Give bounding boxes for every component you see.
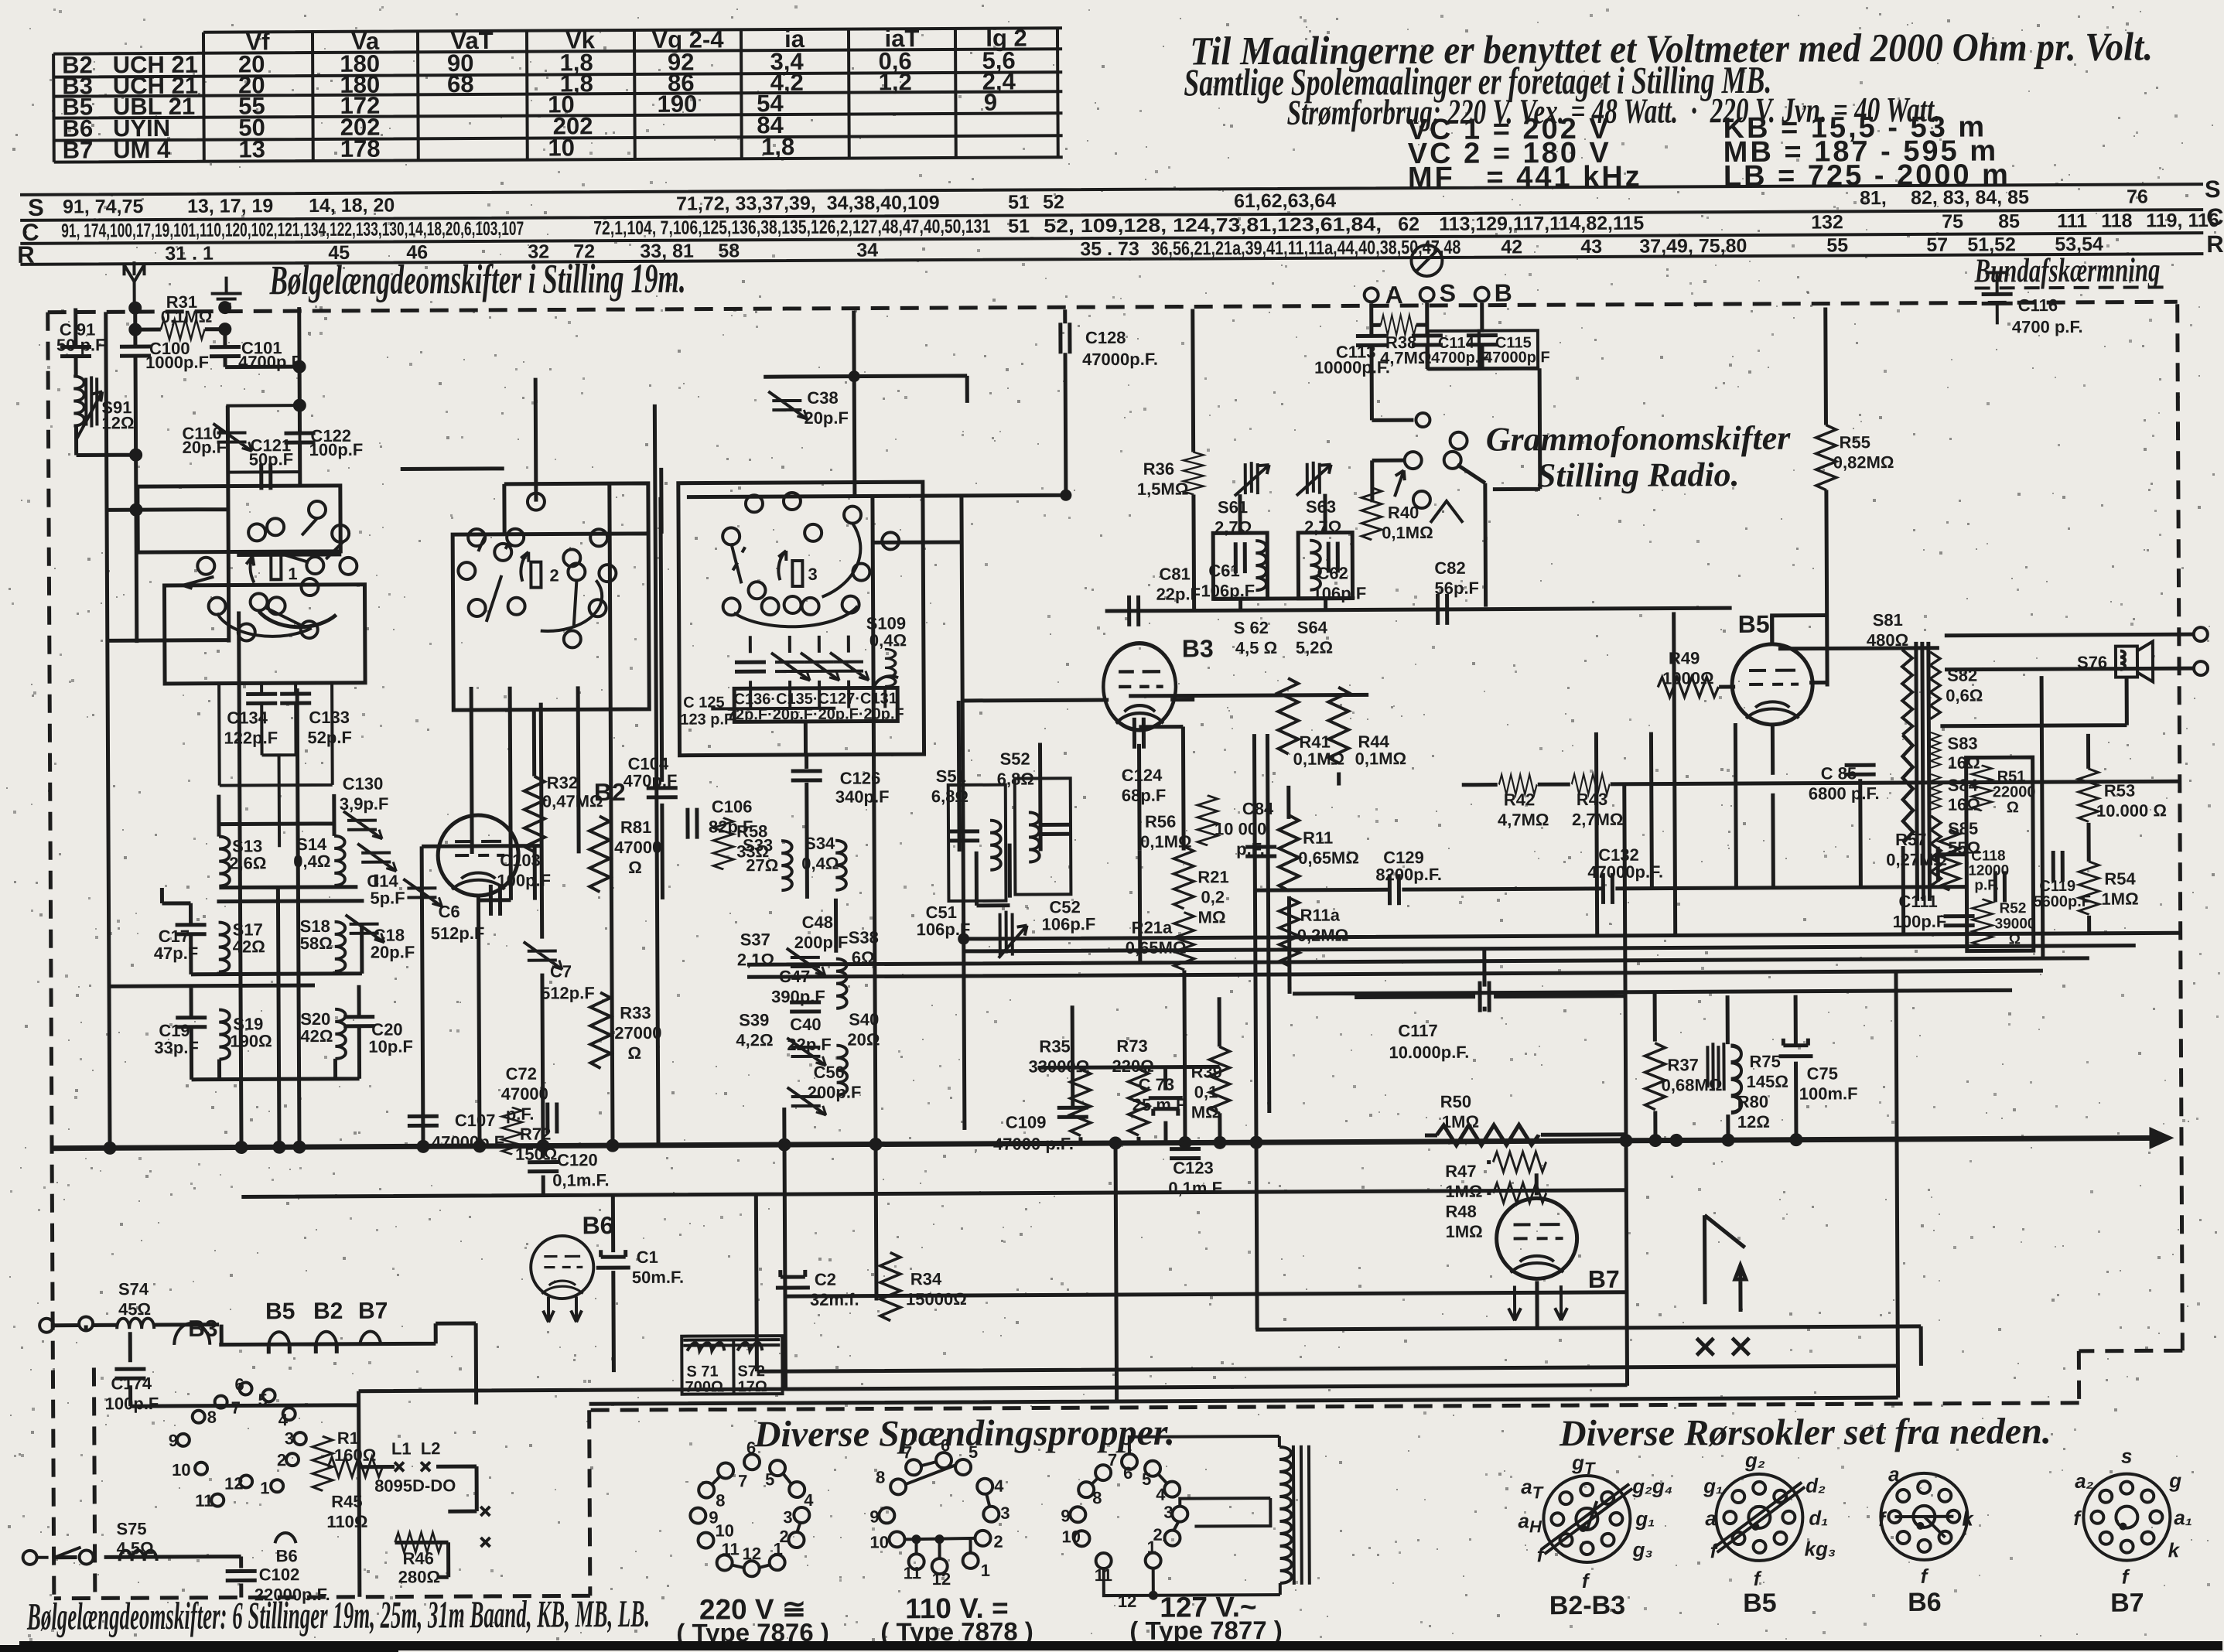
svg-text:C134: C134 [227,708,268,727]
svg-text:15000Ω: 15000Ω [906,1289,967,1309]
svg-text:C 125: C 125 [683,694,724,711]
svg-text:9: 9 [169,1431,178,1450]
svg-text:6,8Ω: 6,8Ω [931,787,969,806]
svg-text:4700 p.F.: 4700 p.F. [2012,317,2083,336]
svg-text:LB = 725 - 2000 m: LB = 725 - 2000 m [1724,159,2010,193]
svg-text:6,8Ω: 6,8Ω [997,769,1034,788]
svg-text:C117: C117 [1398,1021,1438,1040]
svg-text:25 m.F: 25 m.F [1132,1095,1187,1114]
svg-text:123 p.F: 123 p.F [680,711,733,728]
svg-text:g₁: g₁ [1635,1507,1655,1531]
svg-text:100p.F: 100p.F [309,440,364,459]
svg-text:Ω: Ω [2007,799,2019,816]
svg-text:7: 7 [1108,1450,1117,1469]
svg-text:200p.F: 200p.F [808,1083,862,1102]
svg-text:0,82MΩ: 0,82MΩ [1833,452,1894,472]
svg-text:34: 34 [856,239,878,261]
svg-text:0,1MΩ: 0,1MΩ [1355,749,1407,768]
svg-text:R81: R81 [620,817,651,837]
svg-text:R75: R75 [1749,1052,1780,1071]
svg-text:R43: R43 [1577,790,1607,809]
svg-text:C62: C62 [1317,564,1348,583]
svg-text:MF = 441 kHz: MF = 441 kHz [1408,161,1642,194]
svg-text:220Ω: 220Ω [1112,1056,1153,1076]
svg-text:S: S [2205,176,2221,203]
svg-text:R47: R47 [1445,1162,1476,1181]
svg-text:g₂: g₂ [1744,1449,1765,1472]
svg-text:4: 4 [804,1490,814,1510]
svg-text:118: 118 [2101,210,2133,232]
svg-text:4700p.F: 4700p.F [238,352,302,371]
svg-text:R33: R33 [620,1003,651,1022]
svg-text:C47: C47 [779,967,810,986]
svg-text:100p.F: 100p.F [497,871,551,890]
svg-text:kg₃: kg₃ [1805,1537,1836,1560]
svg-text:R39: R39 [1191,1062,1221,1081]
svg-text:S74: S74 [118,1279,149,1299]
svg-text:0,6Ω: 0,6Ω [1946,685,1983,705]
svg-text:106p.F: 106p.F [1201,581,1255,600]
svg-text:C123: C123 [1173,1158,1214,1177]
svg-text:1000Ω: 1000Ω [1662,668,1714,688]
svg-text:47000p.F.: 47000p.F. [1587,862,1663,882]
svg-text:42: 42 [1501,236,1522,258]
svg-text:1000p.F: 1000p.F [145,353,209,372]
svg-text:R36: R36 [1143,459,1174,479]
svg-text:91, 174,100,17,19,101,110,120,: 91, 174,100,17,19,101,110,120,102,121,13… [61,218,524,242]
svg-text:12Ω: 12Ω [101,413,134,432]
svg-text:C75: C75 [1807,1063,1838,1083]
svg-text:S81: S81 [1873,610,1903,630]
svg-text:52, 109,128, 124,73,81,123,61: 52, 109,128, 124,73,81,123,61,84, [1044,213,1382,237]
svg-text:75: 75 [1942,211,1963,233]
svg-text:g: g [2168,1469,2181,1492]
svg-text:190Ω: 190Ω [230,1031,272,1050]
svg-text:11: 11 [904,1563,921,1582]
svg-text:s: s [2121,1445,2133,1468]
svg-text:a: a [1888,1463,1900,1486]
svg-text:S76: S76 [2077,653,2107,672]
svg-text:a: a [1705,1507,1717,1530]
svg-text:7: 7 [738,1471,747,1490]
svg-text:aH: aH [1518,1509,1542,1536]
svg-text:4,5Ω: 4,5Ω [116,1538,153,1558]
svg-text:R57: R57 [1895,830,1926,849]
svg-text:6Ω: 6Ω [852,947,875,967]
svg-text:200p.F: 200p.F [794,933,849,952]
svg-text:R52: R52 [1999,900,2026,916]
svg-text:390p.F: 390p.F [771,987,825,1006]
svg-text:R54: R54 [2104,869,2136,889]
svg-text:6: 6 [941,1435,950,1455]
svg-text:f: f [1921,1565,1929,1588]
svg-text:33000Ω: 33000Ω [1028,1056,1089,1076]
svg-text:10: 10 [869,1532,889,1551]
svg-text:50p.F: 50p.F [249,449,294,469]
svg-text:12: 12 [932,1569,951,1589]
svg-text:C2: C2 [815,1270,836,1289]
svg-text:9: 9 [869,1507,879,1526]
svg-text:S: S [1440,279,1457,307]
svg-text:d₁: d₁ [1809,1506,1828,1529]
svg-text:2,7MΩ: 2,7MΩ [1572,810,1624,829]
svg-text:C174: C174 [111,1374,152,1393]
svg-text:S52: S52 [1000,749,1030,769]
svg-text:47000p.F.: 47000p.F. [432,1132,507,1152]
svg-text:R21: R21 [1197,867,1228,886]
svg-text:11: 11 [1095,1565,1112,1585]
svg-text:B5: B5 [265,1299,296,1324]
svg-text:2,1Ω: 2,1Ω [737,950,774,969]
svg-text:S 62: S 62 [1234,618,1269,637]
svg-text:Ω: Ω [2009,931,2021,947]
svg-text:5: 5 [969,1442,978,1462]
svg-text:4700p.F.: 4700p.F. [1431,350,1491,367]
svg-text:1MΩ: 1MΩ [1442,1112,1479,1131]
svg-text:f: f [1754,1567,1762,1590]
svg-text:3: 3 [783,1507,792,1527]
svg-text:aT: aT [1521,1475,1544,1502]
svg-text:8: 8 [876,1467,885,1486]
svg-text:0,2MΩ: 0,2MΩ [1297,926,1349,945]
svg-text:C103: C103 [500,851,541,870]
svg-text:47000 p.F.: 47000 p.F. [993,1134,1074,1154]
svg-text:122p.F: 122p.F [224,728,278,747]
svg-text:6: 6 [746,1438,756,1457]
svg-text:B3: B3 [1182,634,1214,662]
svg-text:58: 58 [718,240,740,261]
svg-text:C7: C7 [550,961,572,981]
svg-text:B2: B2 [313,1299,343,1324]
svg-text:Diverse Rørsokler set fra nede: Diverse Rørsokler set fra neden. [1559,1411,2051,1454]
svg-text:S33: S33 [743,835,773,855]
svg-text:8200p.F.: 8200p.F. [1375,865,1442,884]
svg-text:S39: S39 [739,1010,769,1029]
svg-text:C111: C111 [1898,892,1937,911]
svg-text:S75: S75 [116,1519,146,1538]
svg-text:106p.F: 106p.F [1312,583,1366,602]
svg-text:C50: C50 [813,1063,844,1082]
svg-text:2: 2 [277,1450,286,1469]
svg-text:16Ω: 16Ω [1948,753,1980,773]
svg-text:100p.F.: 100p.F. [1893,912,1949,931]
svg-text:1: 1 [1146,1538,1156,1557]
svg-text:A: A [1385,281,1403,309]
svg-text:B7: B7 [1588,1265,1620,1293]
svg-text:a₁: a₁ [2174,1506,2192,1529]
svg-text:10000p.F.: 10000p.F. [1314,357,1390,377]
svg-text:47000: 47000 [614,838,661,857]
svg-text:7: 7 [903,1442,912,1462]
svg-text:1,5MΩ: 1,5MΩ [1137,480,1189,499]
svg-text:R11: R11 [1303,828,1333,848]
svg-text:C 85: C 85 [1821,763,1857,783]
svg-text:C133: C133 [309,708,350,727]
svg-text:B7 UM 4: B7 UM 4 [63,136,171,164]
svg-text:52p.F: 52p.F [307,728,352,747]
svg-text:B6: B6 [276,1546,298,1565]
svg-text:58Ω: 58Ω [300,934,333,953]
svg-text:4,2Ω: 4,2Ω [736,1030,773,1050]
svg-text:f: f [1878,1507,1887,1531]
svg-text:C40: C40 [790,1015,821,1034]
svg-text:0,1MΩ: 0,1MΩ [161,307,213,326]
svg-text:4,5 Ω: 4,5 Ω [1235,638,1277,657]
svg-text:4: 4 [994,1476,1004,1496]
svg-text:R11a: R11a [1300,906,1341,925]
svg-text:S37: S37 [740,930,770,949]
svg-text:R: R [17,241,35,268]
svg-text:106p.F: 106p.F [917,920,971,939]
svg-text:C116: C116 [2018,295,2058,315]
svg-text:1MΩ: 1MΩ [2101,889,2138,909]
svg-text:68p.F: 68p.F [1122,786,1167,805]
svg-text:B6: B6 [1908,1588,1942,1617]
svg-text:2,7Ω: 2,7Ω [1214,517,1252,537]
svg-text:R53: R53 [2104,781,2135,800]
svg-text:5,2Ω: 5,2Ω [1296,638,1333,657]
svg-text:R80: R80 [1737,1092,1768,1111]
svg-text:7: 7 [231,1398,241,1418]
svg-text:39000: 39000 [1995,916,2036,932]
svg-text:0,68MΩ: 0,68MΩ [1662,1075,1723,1094]
svg-text:17Ω: 17Ω [737,1378,767,1395]
svg-text:10p.F: 10p.F [368,1036,413,1056]
svg-text:42Ω: 42Ω [300,1026,333,1046]
svg-text:0,4Ω: 0,4Ω [293,852,330,871]
svg-text:B6: B6 [582,1211,613,1239]
svg-text:S34: S34 [805,834,835,853]
svg-text:2,7Ω: 2,7Ω [1304,517,1341,537]
svg-text:C38: C38 [807,388,838,408]
svg-text:10: 10 [715,1521,734,1540]
svg-text:p.F.: p.F. [1236,839,1265,858]
svg-text:3: 3 [1000,1504,1010,1523]
svg-text:1: 1 [774,1539,783,1558]
svg-text:55: 55 [1826,234,1848,256]
svg-text:R35: R35 [1039,1036,1070,1056]
svg-text:22000p.F.: 22000p.F. [255,1585,330,1604]
svg-text:4: 4 [278,1410,289,1429]
svg-text:f: f [1582,1569,1590,1592]
svg-text:1: 1 [981,1561,990,1580]
svg-text:C128: C128 [1085,328,1126,347]
svg-text:178: 178 [340,135,381,162]
svg-text:S: S [28,194,44,221]
svg-text:k: k [1962,1507,1974,1531]
svg-text:52: 52 [1043,191,1064,213]
svg-text:B7: B7 [358,1299,388,1324]
svg-text:14, 18, 20: 14, 18, 20 [309,195,395,217]
svg-text:100m.F: 100m.F [1799,1084,1858,1103]
svg-text:3: 3 [808,565,817,584]
svg-text:85: 85 [1998,210,2020,232]
svg-text:R40: R40 [1388,503,1419,522]
svg-text:0,4Ω: 0,4Ω [869,630,907,650]
svg-text:22000: 22000 [1993,783,2036,800]
svg-text:R49: R49 [1669,648,1700,667]
svg-text:C82: C82 [1434,558,1465,578]
svg-text:C84: C84 [1242,799,1274,818]
svg-text:12Ω: 12Ω [1737,1112,1770,1131]
svg-text:37,49, 75,80: 37,49, 75,80 [1639,235,1747,258]
svg-text:B: B [1495,278,1512,306]
svg-text:p.F.: p.F. [506,1104,535,1124]
svg-text:31 . 1: 31 . 1 [165,243,214,265]
svg-text:71,72, 33,37,39, 34,38,40,109: 71,72, 33,37,39, 34,38,40,109 [676,192,940,215]
svg-text:27000: 27000 [614,1023,661,1043]
svg-text:47p.F: 47p.F [154,944,199,963]
svg-text:33p.F: 33p.F [154,1038,199,1057]
svg-text:5p.F: 5p.F [370,888,405,907]
svg-text:C106: C106 [712,797,753,816]
svg-text:S83: S83 [1947,734,1977,753]
svg-text:12: 12 [743,1544,762,1563]
svg-text:B3: B3 [188,1316,218,1342]
svg-text:47000p.F: 47000p.F [1484,349,1550,366]
svg-text:61,62,63,64: 61,62,63,64 [1234,190,1336,213]
svg-text:k: k [2168,1538,2181,1562]
svg-text:a₂: a₂ [2075,1469,2094,1493]
svg-text:MΩ: MΩ [1191,1102,1219,1121]
svg-text:13, 17, 19: 13, 17, 19 [187,195,273,217]
svg-text:R72: R72 [520,1125,551,1144]
svg-text:C102: C102 [259,1565,300,1584]
svg-text:0,1: 0,1 [1194,1082,1218,1101]
svg-text:150Ω: 150Ω [515,1145,557,1164]
svg-text:72p.F·20p.F·20p.F·20p.F: 72p.F·20p.F·20p.F·20p.F [727,705,904,723]
svg-text:20p.F: 20p.F [371,942,415,961]
svg-text:0,27MΩ: 0,27MΩ [1886,850,1947,869]
svg-text:50m.F.: 50m.F. [632,1268,684,1287]
svg-text:280Ω: 280Ω [398,1567,440,1586]
svg-text:C126: C126 [840,768,881,787]
svg-text:10.000 Ω: 10.000 Ω [2096,800,2167,820]
svg-text:12000: 12000 [1968,862,2009,879]
svg-text:R46: R46 [403,1548,434,1568]
svg-text:11: 11 [195,1491,213,1510]
svg-text:S85: S85 [1948,819,1978,838]
svg-text:S82: S82 [1947,666,1977,685]
svg-text:132: 132 [1811,211,1843,233]
svg-text:160Ω: 160Ω [334,1445,376,1465]
svg-text:C48: C48 [802,913,833,932]
svg-text:1: 1 [260,1478,269,1497]
svg-text:6: 6 [1123,1463,1132,1483]
svg-text:5: 5 [1142,1469,1151,1489]
svg-text:22p.F: 22p.F [1156,584,1201,603]
svg-text:0,2: 0,2 [1201,887,1225,906]
svg-text:Ω: Ω [627,1043,641,1063]
svg-text:8: 8 [1092,1488,1102,1507]
svg-text:45Ω: 45Ω [118,1299,151,1319]
svg-text:27Ω: 27Ω [746,855,778,875]
svg-text:47000p.F.: 47000p.F. [1082,350,1158,369]
svg-text:2,6Ω: 2,6Ω [229,853,266,872]
svg-text:0,1m.F.: 0,1m.F. [552,1170,609,1190]
svg-text:R51: R51 [1997,768,2026,785]
svg-text:35 . 73: 35 . 73 [1080,238,1139,260]
svg-text:5: 5 [765,1469,774,1489]
svg-text:0,1MΩ: 0,1MΩ [1382,523,1433,542]
svg-text:B2: B2 [594,778,626,806]
svg-text:0,1m.F.: 0,1m.F. [1168,1178,1225,1197]
svg-text:9: 9 [984,89,997,116]
svg-text:12: 12 [224,1473,244,1493]
svg-text:2: 2 [993,1532,1003,1551]
svg-text:512p.F: 512p.F [541,983,595,1002]
svg-text:0,4Ω: 0,4Ω [801,854,839,873]
svg-text:5: 5 [258,1390,268,1409]
svg-text:480Ω: 480Ω [1867,630,1908,650]
svg-text:8095D-DO: 8095D-DO [374,1476,456,1496]
svg-text:11: 11 [722,1539,740,1558]
svg-text:111: 111 [2057,210,2087,232]
svg-text:R56: R56 [1145,812,1176,831]
svg-text:3: 3 [1163,1503,1173,1522]
svg-text:MΩ: MΩ [1198,907,1226,927]
svg-text:47000: 47000 [501,1084,548,1104]
svg-text:91, 74,75: 91, 74,75 [63,196,143,218]
svg-text:13: 13 [238,135,265,162]
svg-text:R55: R55 [1840,432,1870,452]
svg-text:B2-B3: B2-B3 [1549,1591,1625,1620]
svg-text:S40: S40 [849,1009,879,1029]
svg-text:3: 3 [285,1428,294,1448]
svg-text:9: 9 [1061,1506,1070,1525]
svg-text:4,7MΩ: 4,7MΩ [1498,810,1549,829]
svg-text:10: 10 [1061,1527,1081,1546]
svg-text:42Ω: 42Ω [233,937,265,956]
svg-text:C120: C120 [557,1150,598,1169]
svg-text:20p.F: 20p.F [183,438,227,457]
svg-text:g₂g₄: g₂g₄ [1631,1474,1672,1497]
svg-text:145Ω: 145Ω [1747,1072,1788,1091]
svg-text:S63: S63 [1306,497,1336,517]
svg-text:R50: R50 [1440,1092,1471,1111]
svg-text:Grammofonomskifter: Grammofonomskifter [1486,419,1792,459]
svg-text:1,2: 1,2 [879,68,912,95]
svg-text:470p.F: 470p.F [623,771,678,790]
svg-text:22p.F: 22p.F [787,1035,832,1054]
svg-text:C6: C6 [438,902,459,921]
svg-text:10: 10 [548,134,575,161]
svg-text:d₂: d₂ [1806,1473,1826,1497]
svg-text:S64: S64 [1297,618,1328,637]
svg-text:( Type 7877 ): ( Type 7877 ) [1129,1616,1283,1645]
svg-text:C 73: C 73 [1139,1075,1175,1094]
svg-text:106p.F: 106p.F [1042,914,1096,934]
svg-text:f: f [2122,1565,2130,1589]
svg-text:20Ω: 20Ω [847,1029,880,1049]
svg-text:57: 57 [1926,234,1948,256]
svg-text:50 p.F: 50 p.F [56,335,106,354]
svg-text:R48: R48 [1445,1202,1476,1221]
svg-text:43: 43 [1580,236,1602,258]
svg-text:S38: S38 [849,927,879,947]
svg-text:f: f [2073,1507,2082,1530]
svg-text:C109: C109 [1006,1112,1047,1131]
svg-text:R37: R37 [1667,1055,1698,1074]
svg-text:B5: B5 [1743,1589,1777,1618]
svg-text:C72: C72 [505,1064,536,1084]
svg-text:Diverse Spændingspropper.: Diverse Spændingspropper. [753,1412,1175,1456]
svg-text:16Ω: 16Ω [1948,795,1980,814]
svg-text:110Ω: 110Ω [326,1512,367,1531]
svg-text:S51: S51 [936,766,966,786]
svg-text:32m.f.: 32m.f. [810,1290,859,1309]
svg-text:36,56,21,21a,39,41,11,11a,44,4: 36,56,21,21a,39,41,11,11a,44,40,38,50,47… [1151,237,1460,260]
